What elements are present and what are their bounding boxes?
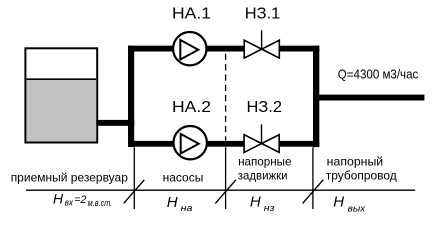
svg-text:вых: вых bbox=[348, 203, 367, 214]
svg-text:Н: Н bbox=[250, 193, 261, 210]
svg-text:напорные: напорные bbox=[238, 155, 292, 169]
svg-text:приемный резервуар: приемный резервуар bbox=[11, 170, 129, 184]
svg-text:задвижки: задвижки bbox=[238, 169, 288, 183]
svg-text:НА.2: НА.2 bbox=[172, 99, 211, 116]
svg-text:Н: Н bbox=[167, 194, 178, 211]
valve НЗ.2 (gate valve bowtie with stem) bbox=[244, 124, 279, 152]
formula Н_нз bbox=[250, 193, 275, 214]
svg-text:на: на bbox=[181, 203, 193, 214]
head axis line bbox=[26, 189, 415, 191]
tank: receiving reservoir (приемный резервуар) bbox=[25, 48, 97, 142]
svg-text:=2: =2 bbox=[74, 194, 86, 206]
wire: bottom branch pipe left segment bbox=[128, 141, 244, 147]
axis tick slash at x=313 bbox=[303, 180, 324, 204]
pump HA.2 (circle with triangle) bbox=[174, 126, 207, 159]
wire: tank outlet pipe bbox=[96, 120, 134, 126]
svg-text:НЗ.2: НЗ.2 bbox=[247, 99, 283, 116]
svg-text:нз: нз bbox=[264, 203, 275, 214]
svg-text:трубопровод: трубопровод bbox=[326, 169, 397, 183]
axis tick slash at x=226 bbox=[215, 180, 236, 204]
dashed boundary line between pumps and valves sections bbox=[225, 54, 227, 141]
wire: discharge output pipe bbox=[319, 95, 424, 101]
formula Н_вх = 2 м.в.ст. bbox=[53, 190, 112, 209]
svg-text:Н: Н bbox=[333, 193, 344, 210]
svg-text:насосы: насосы bbox=[163, 170, 204, 184]
section divider line below right manifold bbox=[312, 147, 314, 209]
svg-text:Q=4300 м3/час: Q=4300 м3/час bbox=[338, 66, 419, 81]
svg-text:Н: Н bbox=[53, 190, 64, 206]
wire: top branch pipe left segment bbox=[128, 46, 244, 52]
section divider line below left manifold bbox=[133, 147, 135, 209]
svg-text:напорный: напорный bbox=[327, 155, 384, 169]
formula Н_вых bbox=[333, 193, 366, 214]
svg-text:НА.1: НА.1 bbox=[172, 6, 211, 23]
formula Н_на bbox=[167, 194, 193, 214]
valve НЗ.1 (gate valve bowtie with stem) bbox=[244, 30, 279, 58]
wire: right vertical manifold pipe bbox=[313, 46, 319, 147]
wire: left vertical manifold pipe bbox=[128, 46, 134, 147]
axis tick slash at x=134 bbox=[124, 180, 145, 204]
svg-text:вх: вх bbox=[65, 198, 74, 209]
svg-text:м.в.ст.: м.в.ст. bbox=[88, 198, 112, 209]
svg-text:НЗ.1: НЗ.1 bbox=[245, 6, 280, 23]
wire: bottom branch pipe right segment bbox=[280, 141, 320, 147]
wire: top branch pipe right segment bbox=[280, 46, 320, 52]
section divider line below dashed boundary bbox=[225, 147, 227, 209]
pump HA.1 (circle with triangle) bbox=[173, 32, 206, 65]
